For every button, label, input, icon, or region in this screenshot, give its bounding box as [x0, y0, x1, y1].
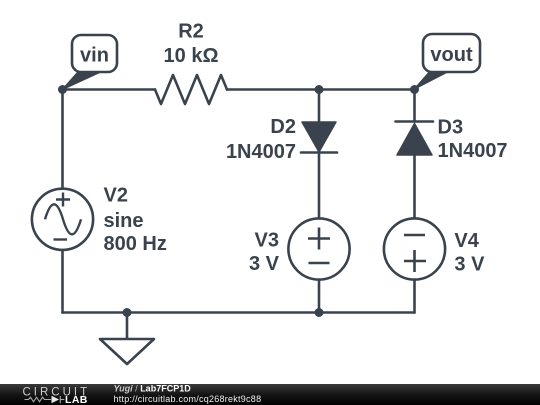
svg-text:1N4007: 1N4007 — [226, 141, 296, 163]
wire left lower: V2 to bottom rail — [61, 250, 64, 313]
node flag vout box — [423, 34, 480, 72]
svg-text:LAB: LAB — [65, 394, 88, 405]
svg-text:800 Hz: 800 Hz — [104, 233, 167, 255]
svg-text:V3: V3 — [255, 230, 279, 252]
wire top: vin node to R2 — [63, 88, 156, 91]
wire bottom rail — [63, 311, 415, 314]
svg-text:vout: vout — [430, 44, 473, 66]
svg-text:Yugi / Lab7FCP1D: Yugi / Lab7FCP1D — [114, 383, 192, 393]
node flag vin tail — [63, 72, 102, 90]
svg-text:R2: R2 — [178, 20, 204, 42]
node flag vout tail — [415, 71, 451, 90]
node dot vin — [58, 85, 67, 94]
wire middle branch lower: V3 to bottom rail — [318, 280, 321, 313]
svg-text:10 kΩ: 10 kΩ — [164, 45, 219, 67]
voltage source V3 — [288, 218, 349, 279]
wire top: R2 to vout node — [227, 88, 415, 91]
svg-text:V4: V4 — [454, 230, 479, 252]
wire right branch mid: D3 to V4 — [413, 155, 416, 219]
svg-text:vin: vin — [80, 44, 109, 66]
wire middle branch mid: D2 to V3 — [318, 153, 321, 219]
node dot middle branch top — [315, 85, 324, 94]
wire right branch upper: vout node to D3 — [413, 90, 416, 122]
resistor R2 — [155, 75, 227, 104]
node dot V3 bottom junction — [315, 308, 324, 317]
svg-text:1N4007: 1N4007 — [438, 140, 508, 162]
svg-text:3 V: 3 V — [249, 253, 280, 275]
svg-text:D2: D2 — [270, 116, 296, 138]
footer logo zigzag and diode — [25, 396, 65, 403]
node dot vout — [410, 85, 419, 94]
footer bar — [0, 384, 540, 405]
wire ground stub — [126, 313, 129, 340]
svg-text:V2: V2 — [104, 185, 128, 207]
svg-text:http://circuitlab.com/cq268rek: http://circuitlab.com/cq268rekt9c88 — [114, 394, 262, 404]
svg-text:D3: D3 — [438, 116, 464, 138]
node flag vin box — [72, 35, 117, 72]
ground — [100, 339, 154, 364]
node dot ground junction — [123, 308, 132, 317]
voltage source V2 (sine) — [32, 189, 93, 250]
diode D2 — [301, 122, 337, 153]
wire middle branch upper: top rail to D2 — [318, 90, 321, 124]
wire right branch lower: V4 to bottom rail — [413, 280, 416, 313]
wire left upper: vin node down to V2 — [61, 90, 64, 190]
svg-text:sine: sine — [104, 210, 144, 232]
svg-text:3 V: 3 V — [454, 253, 485, 275]
voltage source V4 — [384, 218, 445, 279]
diode D3 — [396, 122, 434, 156]
